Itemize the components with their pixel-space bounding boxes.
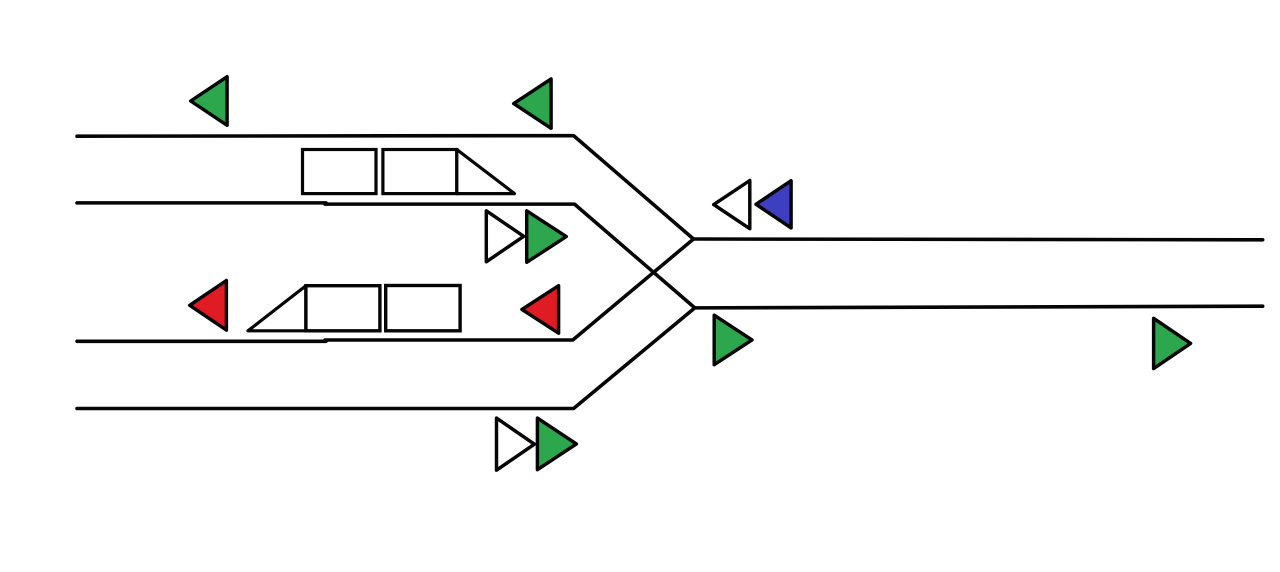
signal S3 white right-facing (below track 2) <box>486 211 523 262</box>
wire track 4 (lower-left siding to junction B) <box>77 308 695 409</box>
wire track 1 (upper-left siding to junction A) <box>77 136 694 239</box>
signal S7 red left-facing (above track 3, left) <box>190 281 227 331</box>
wire track 3 right segment (to junction A) <box>325 239 694 340</box>
signal S11 white right-facing (below track 4) <box>497 418 535 470</box>
signal S8 red left-facing (above track 3, at bend) <box>522 286 559 334</box>
train T1 car 2 (rectangle) <box>383 150 457 194</box>
signal S2 green left-facing (above track 1, at bend) <box>514 79 551 128</box>
signal S4 green right-facing (below track 2) <box>527 211 567 262</box>
train T2 car 1 (rectangle) <box>306 286 380 331</box>
signal S6 blue left-facing (above upper right main) <box>756 181 791 228</box>
wire right main line upper (junction A to right edge) <box>694 237 1263 241</box>
signal S10 green right-facing (below lower right main, far right) <box>1154 318 1191 368</box>
train T2 nose (left-facing triangle, on track 3) <box>248 286 306 331</box>
signal S12 green right-facing (below track 4) <box>537 418 576 470</box>
train T1 nose (right-facing triangle) <box>457 150 515 194</box>
wire track 2 (second left siding to junction B) <box>77 203 695 308</box>
train T1 car 1 (rectangle, on track 1/2 between) <box>303 150 377 194</box>
signal S5 white left-facing (above upper right main) <box>714 181 750 229</box>
wire track 3 left segment <box>77 340 326 344</box>
train T2 car 2 (rectangle) <box>386 286 460 331</box>
signal S1 green left-facing (above track 1, left) <box>191 77 227 126</box>
signal S9 green right-facing (below lower right main, at junction) <box>714 315 752 365</box>
wire right main line lower (junction B to right edge) <box>695 306 1263 308</box>
